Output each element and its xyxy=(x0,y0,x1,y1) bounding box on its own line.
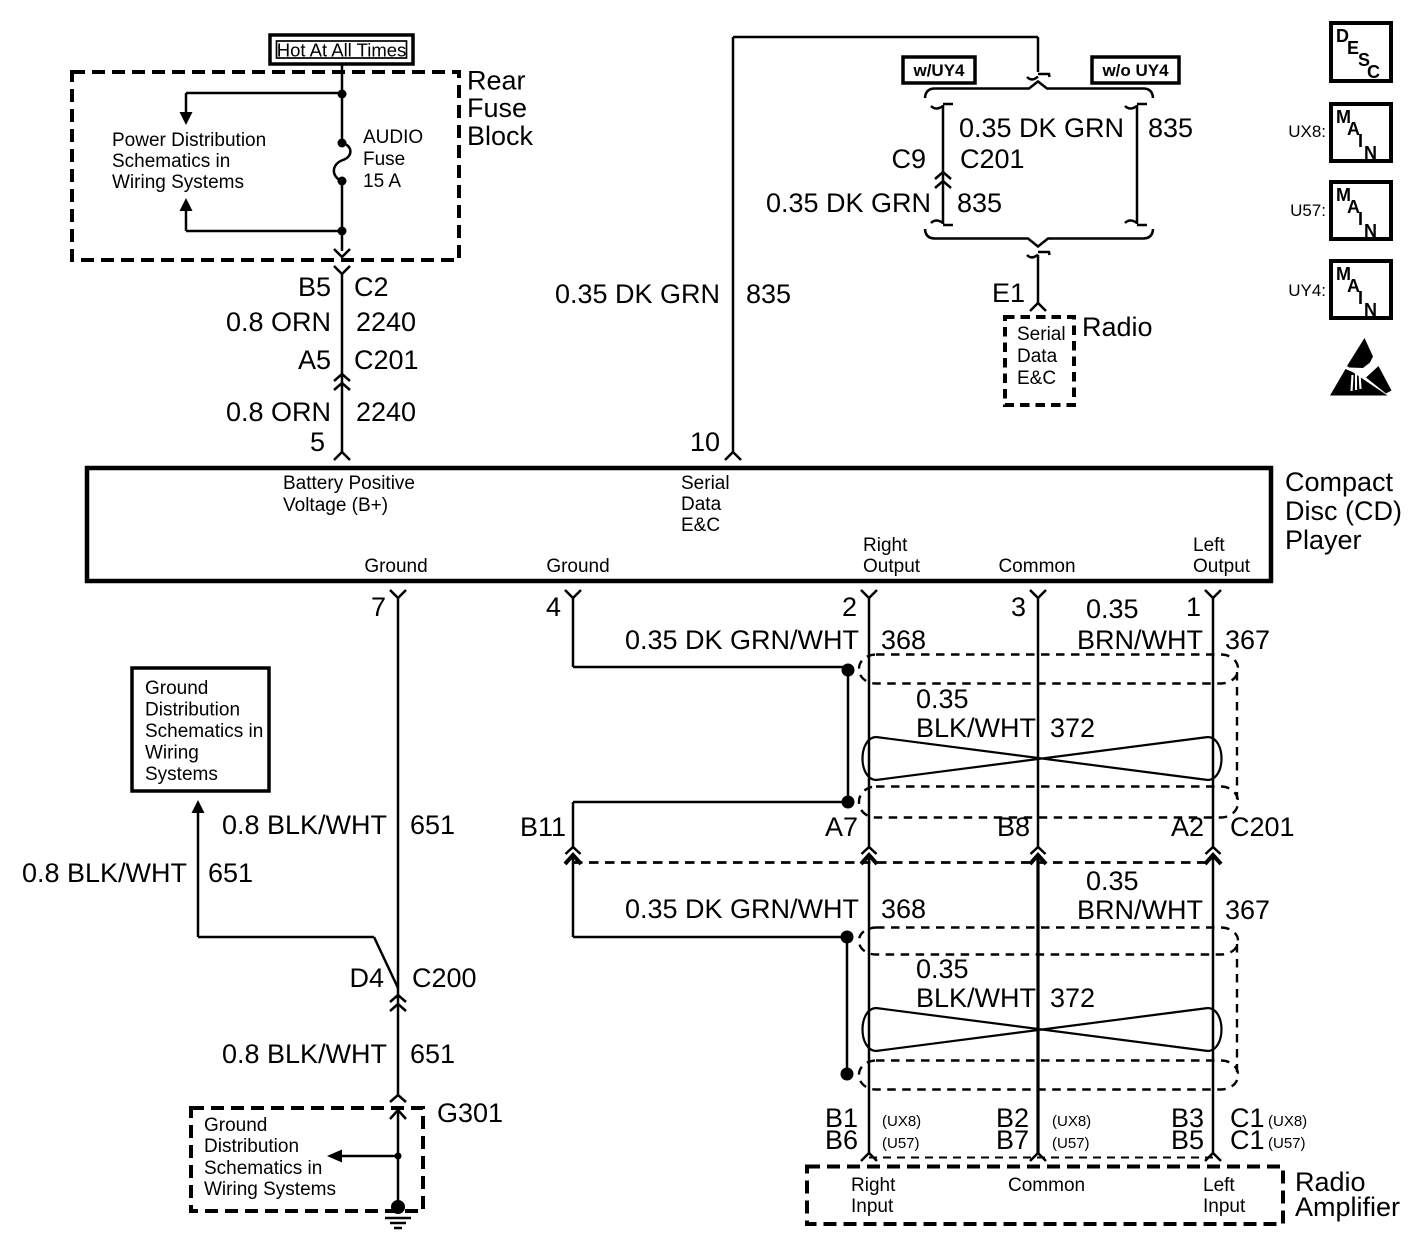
svg-text:B5: B5 xyxy=(1171,1125,1204,1155)
svg-text:Ground: Ground xyxy=(145,678,208,699)
svg-text:0.8 ORN: 0.8 ORN xyxy=(226,397,331,427)
svg-text:w/o UY4: w/o UY4 xyxy=(1101,61,1169,80)
svg-text:Amplifier: Amplifier xyxy=(1295,1192,1400,1222)
svg-text:651: 651 xyxy=(410,810,455,840)
svg-text:C: C xyxy=(1367,62,1380,82)
svg-text:835: 835 xyxy=(957,188,1002,218)
svg-text:0.8 BLK/WHT: 0.8 BLK/WHT xyxy=(222,1039,387,1069)
svg-text:835: 835 xyxy=(1148,113,1193,143)
svg-text:0.8 BLK/WHT: 0.8 BLK/WHT xyxy=(222,810,387,840)
svg-text:B6: B6 xyxy=(825,1125,858,1155)
svg-text:372: 372 xyxy=(1050,713,1095,743)
svg-text:E&C: E&C xyxy=(1017,368,1056,389)
svg-text:Common: Common xyxy=(998,556,1075,577)
svg-text:Systems: Systems xyxy=(145,764,218,785)
svg-text:2: 2 xyxy=(842,592,857,622)
svg-text:Schematics in: Schematics in xyxy=(112,151,230,172)
svg-text:U57:: U57: xyxy=(1290,201,1326,220)
svg-text:(U57): (U57) xyxy=(1052,1135,1090,1152)
svg-text:Input: Input xyxy=(851,1196,894,1217)
svg-text:BRN/WHT: BRN/WHT xyxy=(1077,625,1203,655)
svg-text:B11: B11 xyxy=(520,812,566,842)
svg-text:C1: C1 xyxy=(1230,1125,1265,1155)
svg-text:C201: C201 xyxy=(354,345,419,375)
svg-text:Right: Right xyxy=(863,535,908,556)
svg-text:Battery Positive: Battery Positive xyxy=(283,473,415,494)
svg-text:2240: 2240 xyxy=(356,307,416,337)
svg-text:0.35 DK GRN: 0.35 DK GRN xyxy=(959,113,1124,143)
svg-text:C200: C200 xyxy=(412,963,477,993)
svg-text:7: 7 xyxy=(371,592,386,622)
svg-text:Rear: Rear xyxy=(467,66,526,96)
svg-text:B7: B7 xyxy=(996,1125,1029,1155)
svg-text:(UX8): (UX8) xyxy=(882,1113,921,1130)
svg-text:Ground: Ground xyxy=(546,556,609,577)
svg-text:3: 3 xyxy=(1011,592,1026,622)
svg-text:0.35 DK GRN: 0.35 DK GRN xyxy=(555,279,720,309)
svg-text:N: N xyxy=(1364,300,1377,320)
svg-text:0.35 DK GRN/WHT: 0.35 DK GRN/WHT xyxy=(625,625,859,655)
svg-text:372: 372 xyxy=(1050,983,1095,1013)
svg-text:651: 651 xyxy=(208,858,253,888)
svg-text:Common: Common xyxy=(1008,1175,1085,1196)
svg-text:0.35: 0.35 xyxy=(1086,866,1139,896)
svg-text:835: 835 xyxy=(746,279,791,309)
svg-text:Ground: Ground xyxy=(364,556,427,577)
svg-text:N: N xyxy=(1364,143,1377,163)
svg-text:(U57): (U57) xyxy=(882,1135,920,1152)
svg-text:E1: E1 xyxy=(992,278,1025,308)
svg-text:0.35 DK GRN: 0.35 DK GRN xyxy=(766,188,931,218)
svg-text:Compact: Compact xyxy=(1285,467,1394,497)
svg-text:4: 4 xyxy=(546,592,561,622)
svg-text:AUDIO: AUDIO xyxy=(363,127,423,148)
svg-text:Ground: Ground xyxy=(204,1115,267,1136)
svg-text:BRN/WHT: BRN/WHT xyxy=(1077,895,1203,925)
svg-text:0.35: 0.35 xyxy=(1086,594,1139,624)
svg-text:N: N xyxy=(1364,221,1377,241)
svg-text:Distribution: Distribution xyxy=(204,1136,299,1157)
svg-text:A5: A5 xyxy=(298,345,331,375)
svg-text:Voltage (B+): Voltage (B+) xyxy=(283,495,388,516)
svg-text:Hot At All Times: Hot At All Times xyxy=(277,40,407,61)
svg-text:Distribution: Distribution xyxy=(145,700,240,721)
svg-text:Data: Data xyxy=(1017,346,1058,367)
svg-text:Right: Right xyxy=(851,1175,896,1196)
svg-text:A7: A7 xyxy=(825,812,858,842)
svg-text:15 A: 15 A xyxy=(363,171,401,192)
svg-text:Wiring Systems: Wiring Systems xyxy=(204,1179,336,1200)
svg-text:w/UY4: w/UY4 xyxy=(912,61,965,80)
svg-text:G301: G301 xyxy=(437,1098,503,1128)
svg-text:BLK/WHT: BLK/WHT xyxy=(916,713,1036,743)
svg-text:I: I xyxy=(1358,209,1363,229)
svg-text:Schematics in: Schematics in xyxy=(145,721,263,742)
svg-text:Serial: Serial xyxy=(1017,324,1066,345)
svg-text:Fuse: Fuse xyxy=(363,149,405,170)
svg-text:(UX8): (UX8) xyxy=(1052,1113,1091,1130)
svg-text:B8: B8 xyxy=(997,812,1030,842)
svg-text:10: 10 xyxy=(690,427,720,457)
svg-text:0.35 DK GRN/WHT: 0.35 DK GRN/WHT xyxy=(625,894,859,924)
svg-text:Disc (CD): Disc (CD) xyxy=(1285,496,1402,526)
svg-text:Left: Left xyxy=(1193,535,1225,556)
svg-text:Radio: Radio xyxy=(1082,312,1153,342)
svg-text:(U57): (U57) xyxy=(1268,1135,1306,1152)
svg-text:Block: Block xyxy=(467,121,534,151)
svg-text:2240: 2240 xyxy=(356,397,416,427)
svg-text:BLK/WHT: BLK/WHT xyxy=(916,983,1036,1013)
svg-text:Wiring Systems: Wiring Systems xyxy=(112,172,244,193)
svg-text:Fuse: Fuse xyxy=(467,93,527,123)
svg-text:Power Distribution: Power Distribution xyxy=(112,130,266,151)
svg-text:I: I xyxy=(1358,288,1363,308)
svg-text:Output: Output xyxy=(863,556,921,577)
svg-text:0.35: 0.35 xyxy=(916,954,969,984)
svg-text:367: 367 xyxy=(1225,895,1270,925)
svg-text:367: 367 xyxy=(1225,625,1270,655)
svg-text:Data: Data xyxy=(681,494,722,515)
svg-text:C2: C2 xyxy=(354,272,389,302)
svg-text:UX8:: UX8: xyxy=(1288,122,1326,141)
svg-text:0.8 ORN: 0.8 ORN xyxy=(226,307,331,337)
svg-text:C9: C9 xyxy=(891,144,926,174)
svg-text:Wiring: Wiring xyxy=(145,743,199,764)
svg-text:651: 651 xyxy=(410,1039,455,1069)
svg-text:E&C: E&C xyxy=(681,515,720,536)
svg-text:UY4:: UY4: xyxy=(1288,281,1326,300)
svg-text:C201: C201 xyxy=(960,144,1025,174)
svg-text:Input: Input xyxy=(1203,1196,1246,1217)
svg-text:0.35: 0.35 xyxy=(916,684,969,714)
svg-text:Player: Player xyxy=(1285,525,1362,555)
svg-text:Serial: Serial xyxy=(681,473,730,494)
svg-text:0.8 BLK/WHT: 0.8 BLK/WHT xyxy=(22,858,187,888)
svg-text:5: 5 xyxy=(310,427,325,457)
svg-text:Schematics in: Schematics in xyxy=(204,1158,322,1179)
svg-text:1: 1 xyxy=(1186,592,1201,622)
svg-text:Output: Output xyxy=(1193,556,1251,577)
svg-text:368: 368 xyxy=(881,625,926,655)
svg-text:(UX8): (UX8) xyxy=(1268,1113,1307,1130)
svg-text:C201: C201 xyxy=(1230,812,1295,842)
svg-text:B5: B5 xyxy=(298,272,331,302)
svg-text:D4: D4 xyxy=(349,963,384,993)
svg-text:Left: Left xyxy=(1203,1175,1235,1196)
svg-text:A2: A2 xyxy=(1171,812,1204,842)
svg-text:368: 368 xyxy=(881,894,926,924)
svg-text:I: I xyxy=(1358,131,1363,151)
